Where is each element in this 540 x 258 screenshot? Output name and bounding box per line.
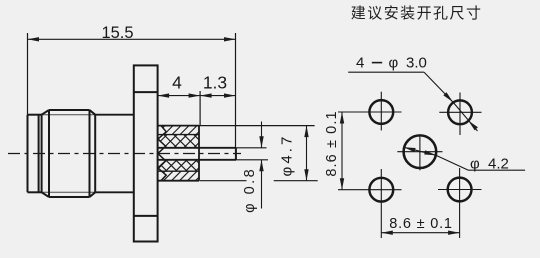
svg-text:4.2: 4.2 [488, 156, 509, 173]
insulator break zigzag [158, 126, 166, 181]
svg-text:φ: φ [470, 156, 480, 173]
dim 4 [199, 91, 201, 126]
mounting hole top-right [448, 100, 472, 124]
hex nut silhouette [48, 110, 50, 197]
svg-text:1.3: 1.3 [203, 73, 227, 93]
leader 4-phi3.0 [348, 71, 424, 73]
insulator hatch block [158, 125, 199, 127]
connector body outline: left interface end [27, 115, 29, 193]
mounting hole top-left [369, 100, 393, 124]
center contact pin [158, 147, 236, 149]
center hole [404, 135, 437, 168]
dim phi4.7 [199, 125, 315, 127]
dim phi0.8 [261, 122, 263, 148]
svg-text:8.6 ± 0.1: 8.6 ± 0.1 [389, 216, 453, 232]
svg-text:4: 4 [172, 73, 182, 93]
flange plate [134, 65, 158, 241]
dim 8.6 +/- 0.1 vertical [341, 112, 343, 190]
mounting hole bottom-right [448, 178, 472, 202]
svg-text:φ: φ [389, 55, 399, 72]
svg-text:φ 0.8: φ 0.8 [242, 167, 258, 213]
dim 8.6 +/- 0.1 horizontal [381, 232, 459, 234]
centerline of connector axis [8, 153, 241, 155]
leader phi4.2 [404, 147, 436, 155]
svg-text:8.6 ± 0.1: 8.6 ± 0.1 [324, 110, 340, 176]
svg-text:4: 4 [356, 55, 364, 72]
svg-text:φ4.7: φ4.7 [279, 134, 296, 177]
mounting hole bottom-left [369, 178, 393, 202]
dim 1.3 [200, 95, 235, 97]
svg-text:3.0: 3.0 [406, 55, 427, 72]
dim 15.5 [27, 33, 29, 115]
svg-text:15.5: 15.5 [101, 24, 133, 42]
svg-text:建议安装开孔尺寸: 建议安装开孔尺寸 [351, 5, 483, 22]
